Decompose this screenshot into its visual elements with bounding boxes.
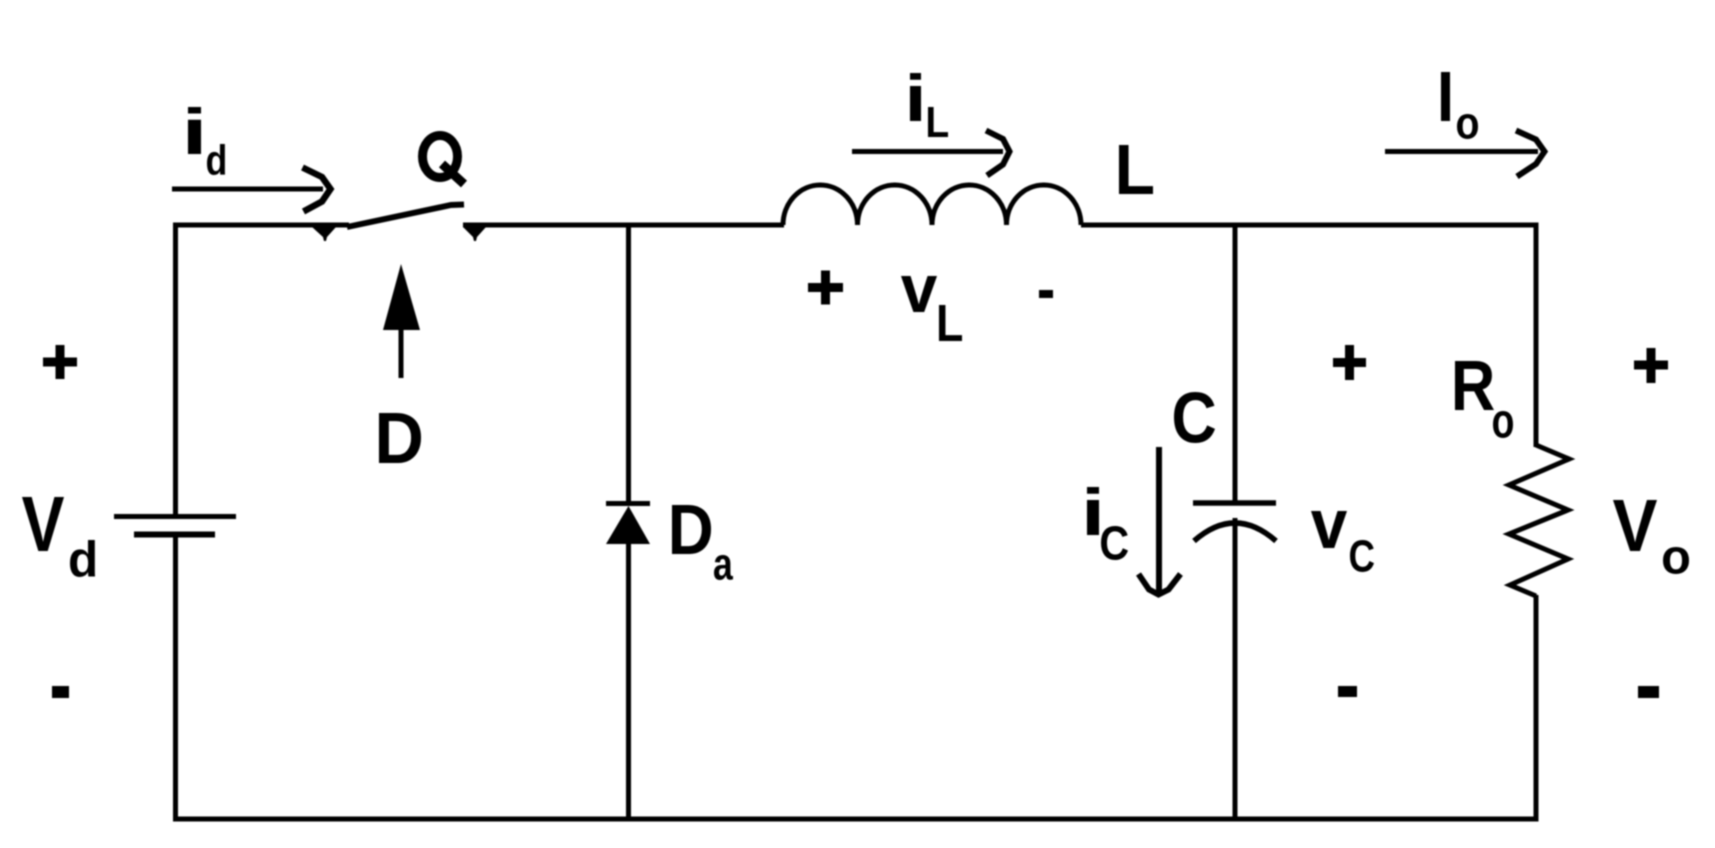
switch contact right (463, 227, 486, 241)
capacitor C bottom plate (curved) (1194, 523, 1276, 541)
label I_o (1441, 72, 1478, 139)
label + (inner, across C/load) (1333, 345, 1366, 380)
label V_o (1613, 500, 1689, 574)
label - (Vd side) (52, 686, 69, 698)
wire: capacitor branch lower (1233, 518, 1238, 819)
label - (Vo side) (1638, 686, 1659, 698)
bottom wire (173, 817, 1539, 822)
label C (1174, 392, 1215, 443)
wire: diode branch lower (626, 543, 631, 819)
label D_a (672, 505, 733, 580)
switch contact left (312, 227, 336, 241)
inductor L (783, 185, 1081, 225)
label V_d (22, 497, 95, 577)
current arrow i_d (172, 168, 331, 212)
wire: top middle (switch to inductor) (463, 223, 784, 228)
label + (Vd side) (43, 345, 77, 379)
current arrow i_C (1139, 447, 1181, 595)
switch Q blade (347, 205, 464, 228)
current arrow I_o (1385, 131, 1545, 177)
current arrow i_L (852, 131, 1010, 176)
duty-cycle arrow D (383, 264, 420, 378)
battery Vd top plate (114, 514, 236, 519)
capacitor C top plate (1193, 500, 1276, 506)
label + (vL) (808, 271, 843, 305)
wire: capacitor branch upper (1233, 223, 1238, 504)
label D (379, 413, 421, 463)
label i_L (910, 73, 948, 137)
diode Da (bar + triangle) (606, 504, 650, 545)
wire: left vertical lower (173, 537, 178, 819)
label v_L (901, 276, 962, 341)
wire: right branch lower (1534, 595, 1539, 819)
label i_C (1087, 487, 1128, 560)
label - (vL) (1039, 290, 1053, 298)
label v_C (1311, 511, 1374, 572)
wire: diode branch upper (626, 223, 631, 505)
wire: left vertical upper + top-left horizontal to switch contact (176, 225, 350, 516)
label - (inner) (1338, 686, 1357, 697)
label i_d (188, 107, 225, 175)
label L (1119, 145, 1153, 194)
resistor Ro zigzag (1509, 445, 1569, 596)
label R_o (1455, 361, 1513, 438)
battery Vd bottom plate (134, 532, 215, 538)
label + (Vo side) (1634, 348, 1668, 383)
wire: top right (inductor to top-right corner) (1081, 223, 1539, 228)
wire: right branch upper (1534, 223, 1539, 448)
label Q (423, 136, 465, 185)
